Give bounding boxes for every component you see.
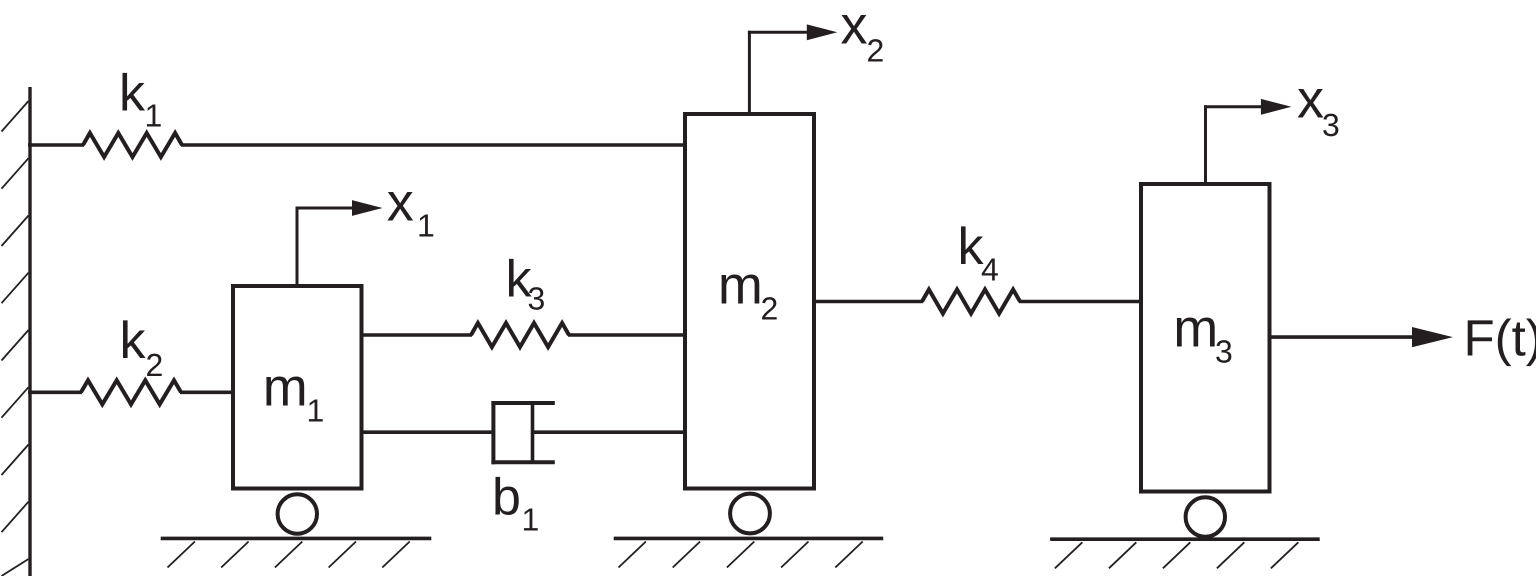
wire spring k1 to mass m2 — [181, 143, 686, 147]
svg-text:3: 3 — [1322, 107, 1340, 143]
label b1 — [492, 468, 539, 537]
svg-text:1: 1 — [145, 98, 163, 134]
label k4 — [958, 218, 999, 287]
ground under mass m1 — [161, 537, 432, 541]
label k1 — [119, 65, 162, 134]
svg-text:3: 3 — [1215, 334, 1233, 370]
svg-text:x: x — [1297, 70, 1324, 130]
ground hatching under mass m2 — [619, 542, 863, 568]
label m3 — [1173, 299, 1232, 370]
label x2 — [841, 0, 885, 69]
wire mass m2 to spring k4 — [814, 300, 923, 304]
label x1 — [387, 173, 435, 244]
label m2 — [718, 256, 778, 327]
label m1 — [263, 358, 325, 429]
svg-text:1: 1 — [307, 393, 325, 429]
wire spring k3 to mass m2 — [568, 333, 686, 337]
damper b1 piston — [531, 404, 535, 461]
svg-text:3: 3 — [528, 281, 546, 317]
wire wall to spring k2 — [28, 390, 82, 394]
spring k3 — [471, 323, 569, 347]
roller under mass m3 — [1186, 497, 1225, 536]
svg-text:m: m — [718, 256, 763, 316]
fixed wall — [2, 87, 31, 576]
force arrow F(t) — [1270, 327, 1453, 347]
ground hatching under mass m3 — [1055, 542, 1298, 568]
spring k2 — [81, 380, 181, 404]
svg-text:2: 2 — [867, 33, 885, 69]
wire damper b1 to mass m2 — [533, 430, 687, 434]
svg-text:4: 4 — [981, 251, 999, 287]
svg-text:x: x — [841, 0, 868, 56]
wire mass m1 to spring k3 — [361, 333, 472, 337]
svg-text:k: k — [120, 312, 147, 370]
svg-text:1: 1 — [522, 502, 540, 538]
svg-text:x: x — [387, 173, 414, 233]
svg-text:m: m — [263, 358, 308, 418]
spring k1 — [83, 133, 182, 157]
svg-text:F(t): F(t) — [1464, 310, 1536, 367]
roller under mass m2 — [730, 494, 770, 534]
mass m2 — [685, 114, 814, 489]
spring k4 — [922, 290, 1020, 314]
label x3 — [1297, 70, 1340, 143]
svg-text:1: 1 — [417, 207, 435, 243]
ground under mass m3 — [1050, 537, 1320, 541]
wire wall to spring k1 — [28, 143, 84, 147]
svg-text:2: 2 — [761, 290, 779, 326]
label k3 — [506, 250, 546, 316]
label k2 — [120, 312, 164, 383]
roller under mass m1 — [278, 494, 317, 533]
wire spring k2 to mass m1 — [180, 390, 234, 394]
svg-text:b: b — [492, 468, 521, 526]
wire spring k4 to mass m3 — [1019, 300, 1142, 304]
svg-text:2: 2 — [146, 347, 164, 383]
ground under mass m2 — [614, 537, 884, 541]
mass m1 — [233, 286, 362, 489]
svg-text:k: k — [119, 65, 146, 123]
damper b1 cylinder — [491, 401, 554, 464]
ground hatching under mass m1 — [168, 542, 410, 568]
displacement arrow x3 — [1204, 99, 1291, 185]
displacement arrow x2 — [748, 24, 837, 115]
svg-text:m: m — [1173, 299, 1218, 359]
displacement arrow x1 — [296, 200, 383, 287]
wire mass m1 to damper b1 — [361, 430, 495, 434]
mass m3 — [1141, 184, 1270, 492]
